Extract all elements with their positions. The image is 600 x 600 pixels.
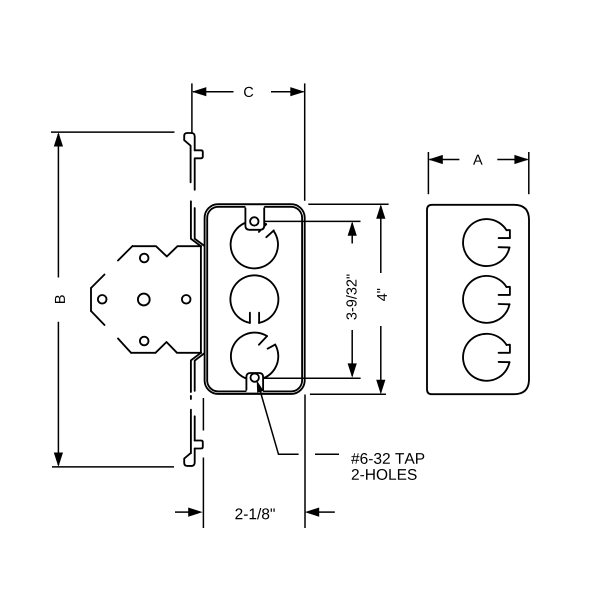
bracket top-left diagonal lower segment [91,275,105,289]
dimension 3-9/32 arrow bottom [348,363,357,377]
box top tab screw hole [250,217,258,225]
dimension A line left stem [430,159,460,161]
bracket flange right line lower segment [195,353,205,390]
bracket flange bottom right tab [195,441,203,449]
bracket flange left line lower segment 2 [190,396,192,399]
bracket flange line along box [200,246,202,353]
dimension 4in arrow top [376,204,385,218]
dimension 4in upper stem [380,206,382,273]
dimension B arrow bottom [54,453,63,467]
dimension 4in lower stem [380,326,382,393]
side knockout bottom slot [499,345,510,363]
bracket flange top right tab [195,150,203,189]
leader arrow to tapped hole [257,380,264,393]
bracket top-left diagonal upper segment [118,246,133,261]
label 2-HOLES [352,469,417,480]
dimension 2-1/8 right arrow [305,508,319,517]
bracket left edge [90,288,92,311]
dimension 2-1/8 left arrow [188,508,202,517]
dimension B arrow top [54,132,63,146]
knockout middle slot right line [258,313,260,323]
label 2-1/8 [235,508,274,519]
dimension B extension line top [51,131,175,133]
dimension B extension line bottom [52,466,174,468]
dimension 3-9/32 lower stem [351,330,353,376]
dimension 2-1/8 extension line right [304,395,306,529]
dimension B line upper stem [57,134,59,278]
dimension A line right stem [497,159,527,161]
bracket hole top [140,254,149,263]
dimension B line lower stem [57,322,59,465]
dimension C line right stem [271,91,304,93]
dimension 4in arrow bottom [376,380,385,394]
label A [473,155,483,165]
dimension 3-9/32 extension line bottom [264,377,360,379]
bracket flange top hook [184,133,192,182]
knockout bottom radial line [268,345,276,349]
side knockout top slot [499,230,510,248]
side view outline [427,205,529,394]
dimension 2-1/8 left line [175,511,189,513]
bracket flange left line lower segment [191,353,201,392]
bracket flange top hook right side [192,133,195,150]
dimension A extension line left [427,152,429,194]
dimension 2-1/8 extension line left [202,398,204,431]
bracket flange bottom hook [184,453,192,466]
knockout circle top [231,221,278,268]
knockout top slash line [259,224,266,232]
knockout middle slot left line [249,313,251,323]
dimension C line left stem [193,91,234,93]
box bottom mounting tab [246,373,263,392]
dimension 2-1/8 right line [319,511,335,513]
side knockout middle [463,276,509,323]
leader line horizontal segment [315,453,339,455]
dimension A extension line right [528,152,530,194]
dimension A arrow left [428,155,442,164]
knockout bottom slash line [259,336,267,345]
knockout circle middle [230,275,278,323]
knockout top radial line [266,230,274,237]
dimension C extension line right [304,83,306,200]
bracket bottom edge [131,342,201,353]
leader line diagonal [258,385,298,455]
dimension A arrow right [514,155,528,164]
bracket flange left line lower segment 3 [190,410,192,454]
label B [55,295,65,303]
bracket flange right line upper segment [195,208,205,246]
box outer outline [205,204,305,394]
box bottom tab screw hole [251,373,259,381]
dimension 3-9/32 upper stem [351,223,353,244]
label #6-32 TAP [351,453,424,464]
label 3-9/32 [346,274,357,319]
dimension 3-9/32 arrow top [348,221,357,235]
bracket flange right line lower segment 2 [194,416,196,440]
bracket hole right [182,295,191,304]
dimension C arrow right [290,87,304,96]
box top mounting tab [245,206,264,230]
bracket hole left [98,295,107,304]
bracket hole bottom [140,337,149,346]
side knockout top [463,219,509,266]
bracket bottom-left diagonal upper segment [91,311,105,325]
dimension C extension line left [191,83,193,133]
knockout circle bottom [231,333,278,380]
label C [244,87,253,97]
dimension 4in extension line bottom [310,393,386,395]
dimension 3-9/32 extension line top [265,220,361,222]
dimension 4in extension line top [308,203,388,205]
dimension C arrow left [192,87,206,96]
bracket outline top edge [133,246,202,256]
bracket flange left line upper segment [191,201,201,246]
bracket flange bottom hook right side [192,449,195,466]
bracket bottom-left diagonal lower segment [118,339,131,353]
label 4in [377,289,387,301]
dimension 2-1/8 extension line left lower part [202,458,204,529]
bracket hole center [138,294,150,306]
side knockout middle slot [499,287,510,305]
side knockout bottom [463,334,509,381]
box inner outline [207,207,302,392]
